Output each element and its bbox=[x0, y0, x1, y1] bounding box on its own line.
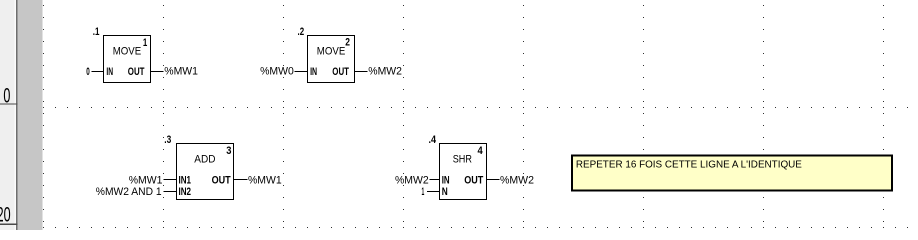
svg-text:.2: .2 bbox=[298, 26, 305, 38]
svg-text:IN: IN bbox=[442, 174, 450, 186]
svg-text:OUT: OUT bbox=[464, 174, 483, 186]
svg-text:%MW2: %MW2 bbox=[395, 174, 429, 186]
svg-text:REPETER 16 FOIS CETTE LIGNE A: REPETER 16 FOIS CETTE LIGNE A L'IDENTIQU… bbox=[576, 158, 802, 170]
wire %MW2 to U4.IN bbox=[430, 179, 440, 181]
svg-text:2: 2 bbox=[345, 37, 350, 49]
svg-text:0: 0 bbox=[86, 66, 90, 78]
wire U1.OUT to %MW1 bbox=[151, 71, 164, 73]
ruler border line bbox=[16, 0, 17, 230]
svg-text:%MW1: %MW1 bbox=[129, 174, 163, 186]
wire U2.OUT to %MW2 bbox=[355, 71, 368, 73]
wire %MW0 to U2.IN bbox=[295, 71, 308, 73]
wire 0 to U1.IN bbox=[92, 71, 104, 73]
ruler tick line 20 bbox=[0, 224, 18, 225]
svg-text:%MW2: %MW2 bbox=[500, 174, 534, 186]
function block U2 MOVE bbox=[308, 36, 355, 83]
wire 1 to U4.N bbox=[427, 191, 440, 193]
svg-text:ADD: ADD bbox=[194, 154, 215, 166]
svg-text:%MW0: %MW0 bbox=[260, 66, 294, 78]
svg-text:IN2: IN2 bbox=[179, 186, 192, 198]
svg-text:%MW2: %MW2 bbox=[368, 66, 402, 78]
ruler label 20 bbox=[0, 202, 11, 226]
svg-text:3: 3 bbox=[226, 145, 231, 157]
function block U3 ADD bbox=[177, 144, 234, 200]
svg-text:1: 1 bbox=[422, 186, 425, 198]
svg-text:OUT: OUT bbox=[128, 66, 145, 78]
svg-text:SHR: SHR bbox=[453, 154, 472, 166]
svg-text:MOVE: MOVE bbox=[113, 46, 142, 58]
svg-text:N: N bbox=[442, 186, 448, 198]
svg-text:%MW2 AND 1: %MW2 AND 1 bbox=[96, 186, 162, 198]
svg-text:0: 0 bbox=[3, 83, 10, 107]
svg-text:IN: IN bbox=[310, 66, 317, 78]
svg-text:.3: .3 bbox=[164, 134, 171, 146]
svg-text:1: 1 bbox=[143, 37, 147, 49]
svg-text:4: 4 bbox=[478, 145, 484, 157]
ruler tick line 10 bbox=[0, 103, 18, 104]
page ruler background bbox=[0, 0, 16, 230]
svg-text:20: 20 bbox=[0, 202, 11, 226]
wire %MW2 AND 1 to U3.IN2 bbox=[164, 191, 177, 193]
comment box bbox=[572, 156, 892, 191]
wire %MW1 to U3.IN1 bbox=[164, 179, 177, 181]
svg-text:IN1: IN1 bbox=[179, 174, 192, 186]
function block U1 MOVE bbox=[104, 36, 151, 83]
svg-text:OUT: OUT bbox=[212, 174, 231, 186]
wire U4.OUT to %MW2 bbox=[487, 179, 500, 181]
svg-text:.1: .1 bbox=[93, 26, 100, 38]
gutter strip bbox=[18, 0, 43, 230]
svg-text:MOVE: MOVE bbox=[317, 46, 346, 58]
svg-text:IN: IN bbox=[106, 66, 113, 78]
function block U4 SHR bbox=[440, 144, 487, 200]
svg-text:%MW1: %MW1 bbox=[248, 174, 282, 186]
wire U3.OUT to %MW1 bbox=[234, 179, 248, 181]
ruler label 10 bbox=[3, 83, 10, 107]
svg-text:.4: .4 bbox=[429, 134, 437, 146]
svg-text:OUT: OUT bbox=[332, 66, 349, 78]
svg-text:%MW1: %MW1 bbox=[164, 66, 198, 78]
